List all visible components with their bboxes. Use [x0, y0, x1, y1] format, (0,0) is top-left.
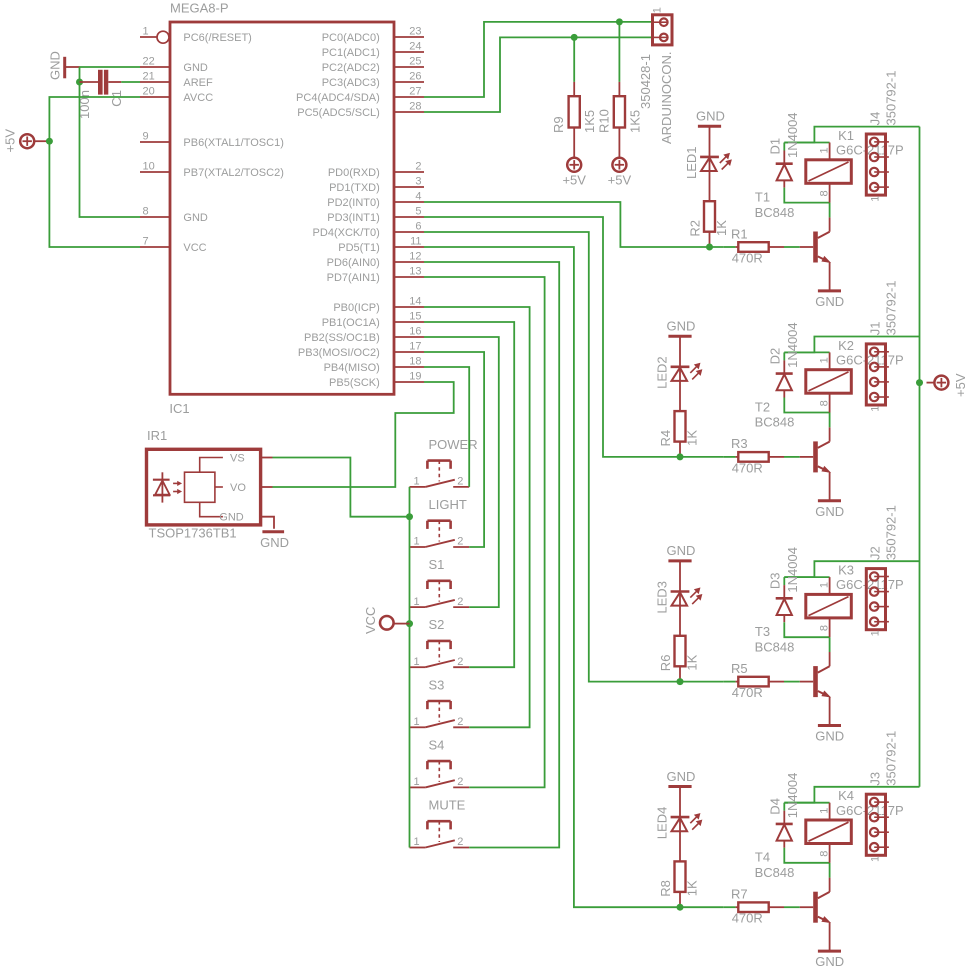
svg-text:PC0(ADC0): PC0(ADC0)	[322, 32, 380, 44]
svg-text:1: 1	[414, 836, 420, 848]
svg-text:LED2: LED2	[655, 356, 670, 389]
ground symbol (T4)	[818, 950, 841, 953]
svg-text:D2: D2	[768, 348, 783, 365]
svg-text:PB0(ICP): PB0(ICP)	[333, 302, 379, 314]
node junction R8/R7	[677, 904, 684, 911]
svg-text:21: 21	[143, 70, 155, 82]
svg-text:PC3(ADC3): PC3(ADC3)	[322, 77, 380, 89]
svg-text:PC5(ADC5/SCL): PC5(ADC5/SCL)	[297, 107, 380, 119]
pin 15 PB1(OC1A) (IC1 right)	[394, 321, 424, 323]
wire PB5 to IR1 VO	[273, 382, 454, 487]
wire pin28 PC5 to connector pin2	[424, 37, 653, 112]
svg-text:1: 1	[414, 596, 420, 608]
LED LED4	[679, 787, 681, 862]
svg-text:PD4(XCK/T0): PD4(XCK/T0)	[313, 227, 380, 239]
wire R1 to T1 base	[784, 246, 800, 248]
svg-text:1: 1	[870, 406, 882, 412]
svg-text:27: 27	[409, 85, 421, 97]
svg-text:20: 20	[143, 85, 155, 97]
svg-text:K1: K1	[838, 128, 854, 143]
pin VS stub	[261, 457, 273, 459]
svg-text:18: 18	[409, 355, 421, 367]
ground symbol (LED1)	[698, 125, 721, 128]
pin 19 PB5(SCK) (IC1 right)	[394, 381, 424, 383]
resistor R2 1K	[704, 201, 715, 232]
svg-text:GND: GND	[696, 109, 725, 124]
svg-text:1K: 1K	[685, 654, 700, 670]
svg-text:S2: S2	[429, 617, 445, 632]
svg-text:2: 2	[457, 716, 463, 728]
wire switch common vertical	[409, 487, 411, 848]
ground symbol (LED4)	[668, 785, 691, 788]
wire D2 to K2 pin8 and T2 collector	[784, 398, 829, 413]
svg-text:12: 12	[409, 250, 421, 262]
wire pin22 to ground	[80, 66, 141, 68]
svg-text:R1: R1	[731, 226, 748, 241]
wire C1 to pin 21 AREF	[121, 81, 140, 83]
wire pin27 PC4 to connector pin1	[424, 22, 653, 97]
ground symbol (LED2)	[668, 335, 691, 338]
svg-text:PC1(ADC1): PC1(ADC1)	[322, 47, 380, 59]
wire +5V feed to K3	[784, 561, 919, 577]
svg-text:1: 1	[870, 856, 882, 862]
wire D1 to K1 pin8 and T1 collector	[784, 188, 829, 203]
wire IR1 VS to switch common	[273, 458, 410, 517]
node junction R2/R1	[706, 244, 713, 251]
svg-text:16: 16	[409, 325, 421, 337]
+5V supply symbol (left)	[20, 134, 34, 148]
svg-text:J4: J4	[868, 112, 883, 126]
svg-text:350792-1: 350792-1	[884, 731, 899, 786]
svg-text:D3: D3	[768, 572, 783, 589]
svg-text:4: 4	[415, 190, 421, 202]
svg-text:+5V: +5V	[608, 172, 632, 187]
svg-text:+5V: +5V	[953, 373, 968, 397]
svg-text:PB5(SCK): PB5(SCK)	[329, 377, 380, 389]
wire PD7-S4	[424, 277, 545, 787]
wire PB2-S1	[424, 337, 499, 607]
IR light arrows	[173, 482, 178, 484]
svg-text:14: 14	[409, 295, 421, 307]
svg-text:GND: GND	[667, 543, 696, 558]
pin 11 PD5(T1) (IC1 right)	[394, 246, 424, 248]
svg-text:GND: GND	[48, 51, 63, 80]
svg-text:R2: R2	[688, 220, 703, 237]
svg-text:22: 22	[143, 55, 155, 67]
pin 24 PC1(ADC1) (IC1 right)	[394, 51, 424, 53]
IR receiver IR1 TSOP1736TB1 body	[147, 449, 261, 525]
svg-text:R5: R5	[731, 661, 748, 676]
pin 10 PB7(XTAL2/TOSC2) (IC1 left)	[140, 171, 170, 173]
svg-text:350792-1: 350792-1	[884, 280, 899, 335]
svg-text:PD7(AIN1): PD7(AIN1)	[327, 272, 380, 284]
svg-text:2: 2	[457, 836, 463, 848]
svg-text:2: 2	[457, 656, 463, 668]
LED LED3	[679, 561, 681, 636]
pin 4 PD2(INT0) (IC1 right)	[394, 201, 424, 203]
svg-text:5: 5	[415, 205, 421, 217]
transistor T1 BC848	[800, 246, 813, 248]
pin 20 AVCC (IC1 left)	[140, 96, 170, 98]
ground symbol (T2)	[818, 499, 841, 502]
svg-text:PD0(RXD): PD0(RXD)	[328, 167, 380, 179]
wire D4 to K4 pin8 and T4 collector	[784, 848, 829, 863]
pin 8 (K3)	[829, 618, 831, 637]
svg-text:PB4(MISO): PB4(MISO)	[324, 362, 380, 374]
connector ARDUINOCON 350428-1	[653, 15, 673, 45]
LED LED2	[679, 336, 681, 411]
pin 8 GND (IC1 left)	[140, 216, 170, 218]
svg-text:PD2(INT0): PD2(INT0)	[327, 197, 380, 209]
ground symbol (top left)	[63, 57, 66, 79]
wire R5 to T3 base	[784, 681, 800, 683]
svg-text:PD5(T1): PD5(T1)	[338, 242, 380, 254]
svg-text:BC848: BC848	[755, 415, 795, 430]
svg-text:1N4004: 1N4004	[785, 773, 800, 819]
node junction +5V bus tap	[916, 379, 923, 386]
wire +5V feed to K4	[784, 787, 919, 803]
svg-text:GND: GND	[815, 729, 844, 744]
svg-text:1: 1	[818, 147, 830, 153]
wire PD5 to relay driver 4	[424, 247, 723, 907]
relay K1 G6C-2117P coil	[806, 160, 852, 184]
svg-text:LIGHT: LIGHT	[429, 497, 467, 512]
switch MUTE	[410, 847, 426, 849]
svg-text:1K: 1K	[714, 220, 729, 236]
+5V supply symbol (R9)	[567, 158, 581, 172]
wire +5V vertical to AVCC and VCC	[49, 97, 140, 247]
pin 27 PC4(ADC4/SDA) (IC1 right)	[394, 96, 424, 98]
svg-text:1: 1	[414, 656, 420, 668]
diode D3 1N4004	[783, 577, 785, 585]
svg-text:MEGA8-P: MEGA8-P	[170, 0, 229, 15]
pin 26 PC3(ADC3) (IC1 right)	[394, 81, 424, 83]
relay K3 G6C-2117P coil	[806, 594, 852, 618]
wire GND net down to pin 8	[80, 82, 141, 217]
svg-text:VS: VS	[230, 453, 245, 465]
svg-text:1: 1	[818, 582, 830, 588]
svg-text:BC848: BC848	[755, 205, 795, 220]
pin 8 (K1)	[829, 183, 831, 202]
svg-text:VO: VO	[230, 482, 246, 494]
wire R7 to T4 base	[784, 906, 800, 908]
pin 25 PC2(ADC2) (IC1 right)	[394, 66, 424, 68]
svg-text:VCC: VCC	[183, 242, 206, 254]
pin 23 PC0(ADC0) (IC1 right)	[394, 36, 424, 38]
svg-text:GND: GND	[667, 319, 696, 334]
svg-text:17: 17	[409, 340, 421, 352]
svg-text:BC848: BC848	[755, 865, 795, 880]
svg-text:VCC: VCC	[363, 607, 378, 634]
svg-text:470R: 470R	[732, 911, 763, 926]
svg-text:T1: T1	[755, 189, 770, 204]
svg-text:R8: R8	[658, 880, 673, 897]
connector J4 350792-1	[866, 134, 885, 195]
pin 13 PD7(AIN1) (IC1 right)	[394, 276, 424, 278]
wire PB3-LIGHT	[424, 352, 484, 547]
switch S3	[410, 726, 426, 728]
wire R9 to net	[573, 37, 575, 82]
svg-text:MUTE: MUTE	[429, 798, 466, 813]
wire PD3 to relay driver 2	[424, 217, 723, 457]
resistor R1 470R	[723, 246, 735, 248]
svg-text:PC2(ADC2): PC2(ADC2)	[322, 62, 380, 74]
relay K4 G6C-2117P coil	[806, 820, 852, 844]
transistor T2 BC848	[800, 456, 813, 458]
svg-text:2: 2	[457, 536, 463, 548]
wire R3 to T2 base	[784, 456, 800, 458]
wire GND net down to C1	[79, 67, 81, 82]
svg-text:100n: 100n	[77, 90, 92, 119]
svg-text:8: 8	[818, 851, 830, 857]
svg-text:15: 15	[409, 310, 421, 322]
svg-text:1: 1	[870, 630, 882, 636]
svg-text:2: 2	[457, 776, 463, 788]
svg-text:LED4: LED4	[655, 807, 670, 840]
svg-text:T4: T4	[755, 850, 770, 865]
wire PD6-MUTE	[424, 262, 559, 848]
svg-text:1K: 1K	[685, 880, 700, 896]
pin 3 PD1(TXD) (IC1 right)	[394, 186, 424, 188]
svg-text:K2: K2	[838, 338, 854, 353]
pin GND stub to ground	[261, 517, 274, 529]
svg-text:POWER: POWER	[429, 437, 478, 452]
svg-text:25: 25	[409, 55, 421, 67]
svg-text:28: 28	[409, 100, 421, 112]
svg-text:J1: J1	[868, 322, 883, 336]
svg-text:T3: T3	[755, 624, 770, 639]
svg-text:J2: J2	[868, 546, 883, 560]
svg-text:PB6(XTAL1/TOSC1): PB6(XTAL1/TOSC1)	[183, 137, 283, 149]
switch LIGHT	[410, 546, 426, 548]
transistor T3 BC848	[800, 681, 813, 683]
node junction +5V tap	[46, 138, 53, 145]
resistor R5 470R	[723, 681, 735, 683]
connector J3 350792-1	[866, 794, 885, 855]
svg-text:1: 1	[414, 716, 420, 728]
svg-text:+5V: +5V	[3, 129, 18, 153]
connector J2 350792-1	[866, 569, 885, 630]
svg-text:23: 23	[409, 25, 421, 37]
svg-text:11: 11	[410, 235, 421, 247]
svg-text:GND: GND	[260, 535, 289, 550]
node junction R9 net	[571, 34, 578, 41]
svg-text:19: 19	[409, 370, 421, 382]
svg-text:26: 26	[409, 70, 421, 82]
pin 18 PB4(MISO) (IC1 right)	[394, 366, 424, 368]
pin 14 PB0(ICP) (IC1 right)	[394, 306, 424, 308]
resistor R7 470R	[723, 906, 735, 908]
svg-text:AREF: AREF	[183, 77, 213, 89]
pin 5 PD3(INT1) (IC1 right)	[394, 216, 424, 218]
ground symbol (LED3)	[668, 559, 691, 562]
svg-text:GND: GND	[183, 212, 208, 224]
wire PD2 to relay driver 1	[424, 202, 723, 247]
svg-text:K4: K4	[838, 788, 854, 803]
svg-text:1N4004: 1N4004	[785, 547, 800, 593]
svg-text:PB3(MOSI/OC2): PB3(MOSI/OC2)	[298, 347, 380, 359]
svg-text:ARDUINOCON.: ARDUINOCON.	[659, 52, 674, 144]
svg-text:13: 13	[409, 265, 421, 277]
pin 17 PB3(MOSI/OC2) (IC1 right)	[394, 351, 424, 353]
svg-text:1N4004: 1N4004	[785, 322, 800, 368]
pin 1 (K2)	[829, 352, 831, 369]
svg-text:350428-1: 350428-1	[638, 54, 653, 109]
+5V supply symbol (right)	[934, 376, 948, 390]
+5V supply symbol (R10)	[612, 158, 626, 172]
svg-text:1: 1	[414, 776, 420, 788]
diode D1 1N4004	[783, 143, 785, 151]
svg-text:3: 3	[415, 175, 421, 187]
svg-text:IR1: IR1	[147, 428, 167, 443]
svg-text:1: 1	[414, 476, 420, 488]
pin 6 PD4(XCK/T0) (IC1 right)	[394, 231, 424, 233]
wire PB1-S2	[424, 322, 514, 667]
svg-text:S3: S3	[429, 677, 445, 692]
svg-text:10: 10	[143, 160, 155, 172]
diode D4 1N4004	[783, 803, 785, 811]
pin 8 (K4)	[829, 844, 831, 863]
svg-text:1: 1	[818, 357, 830, 363]
svg-text:GND: GND	[667, 769, 696, 784]
node junction R6/R5	[677, 678, 684, 685]
diode D2 1N4004	[783, 352, 785, 360]
transistor T4 BC848	[800, 906, 813, 908]
svg-text:PB1(OC1A): PB1(OC1A)	[322, 317, 380, 329]
svg-text:2: 2	[457, 476, 463, 488]
svg-text:PB2(SS/OC1B): PB2(SS/OC1B)	[304, 332, 380, 344]
ground symbol (T1)	[818, 289, 841, 292]
svg-text:9: 9	[143, 130, 149, 142]
svg-text:AVCC: AVCC	[183, 92, 213, 104]
svg-text:GND: GND	[183, 62, 208, 74]
svg-text:8: 8	[818, 625, 830, 631]
pin 12 PD6(AIN0) (IC1 right)	[394, 261, 424, 263]
svg-text:1N4004: 1N4004	[785, 112, 800, 158]
node junction IR VS to switch common	[406, 513, 413, 520]
pin VO stub	[261, 486, 273, 488]
node junction VCC to switch common	[406, 620, 413, 627]
svg-text:R10: R10	[596, 109, 611, 133]
node junction R10 net	[616, 18, 623, 25]
svg-text:470R: 470R	[732, 460, 763, 475]
svg-text:350792-1: 350792-1	[884, 71, 899, 126]
svg-text:TSOP1736TB1: TSOP1736TB1	[149, 526, 237, 541]
IR1 internal block	[185, 472, 215, 502]
svg-text:350792-1: 350792-1	[884, 505, 899, 560]
svg-text:D4: D4	[768, 798, 783, 815]
svg-text:LED1: LED1	[684, 146, 699, 179]
pin 9 PB6(XTAL1/TOSC1) (IC1 left)	[140, 141, 170, 143]
switch POWER	[410, 486, 426, 488]
photodiode symbol inside IR1	[161, 472, 163, 502]
capacitor C1 100n	[80, 81, 99, 83]
svg-text:+5V: +5V	[562, 172, 586, 187]
node junction R4/R3	[677, 453, 684, 460]
ground symbol (IR1)	[262, 530, 284, 533]
resistor R10 1K5	[618, 82, 620, 96]
svg-text:1K5: 1K5	[582, 110, 597, 133]
switch S2	[410, 666, 426, 668]
svg-text:T2: T2	[755, 399, 770, 414]
pin 21 AREF (IC1 left)	[140, 81, 170, 83]
wire PB0-S3	[424, 307, 530, 727]
svg-text:PB7(XTAL2/TOSC2): PB7(XTAL2/TOSC2)	[183, 167, 283, 179]
switch S4	[410, 786, 426, 788]
svg-text:IC1: IC1	[169, 401, 189, 416]
pin 1 (K3)	[829, 577, 831, 594]
svg-text:BC848: BC848	[755, 639, 795, 654]
wire +5V feed to K2	[784, 337, 919, 353]
svg-text:PC4(ADC4/SDA): PC4(ADC4/SDA)	[296, 92, 380, 104]
resistor R9 1K5	[573, 82, 575, 96]
svg-text:1K5: 1K5	[627, 110, 642, 133]
switch S1	[410, 606, 426, 608]
pin 8 (K2)	[829, 393, 831, 412]
svg-text:8: 8	[143, 205, 149, 217]
svg-text:7: 7	[143, 235, 149, 247]
pin 7 VCC (IC1 left)	[140, 246, 170, 248]
svg-text:R4: R4	[658, 430, 673, 447]
svg-text:PC6(/RESET): PC6(/RESET)	[183, 32, 251, 44]
svg-text:PD1(TXD): PD1(TXD)	[329, 182, 380, 194]
svg-text:D1: D1	[768, 138, 783, 155]
svg-text:6: 6	[415, 220, 421, 232]
relay K2 G6C-2117P coil	[806, 370, 852, 394]
svg-text:1: 1	[143, 25, 149, 37]
svg-text:1K: 1K	[685, 430, 700, 446]
IC IC1 MEGA8-P body	[170, 22, 394, 394]
svg-text:470R: 470R	[732, 251, 763, 266]
pin 22 GND (IC1 left)	[140, 66, 170, 68]
wire +5V bus (right)	[919, 127, 921, 787]
svg-text:LED3: LED3	[655, 581, 670, 614]
wire +5V feed to K1	[784, 127, 919, 143]
svg-text:S1: S1	[429, 557, 445, 572]
svg-text:S4: S4	[429, 737, 445, 752]
svg-text:1: 1	[818, 808, 830, 814]
svg-text:R7: R7	[731, 887, 748, 902]
svg-text:470R: 470R	[732, 685, 763, 700]
wire PD4 to relay driver 3	[424, 232, 723, 682]
svg-text:2: 2	[415, 160, 421, 172]
pin 28 PC5(ADC5/SCL) (IC1 right)	[394, 111, 424, 113]
VCC supply symbol	[380, 616, 394, 630]
wire R10 to net	[618, 22, 620, 82]
pin 16 PB2(SS/OC1B) (IC1 right)	[394, 336, 424, 338]
LED LED1	[709, 126, 711, 201]
pin 2 PD0(RXD) (IC1 right)	[394, 171, 424, 173]
ground symbol (T3)	[818, 724, 841, 727]
svg-text:GND: GND	[815, 294, 844, 309]
svg-text:R6: R6	[658, 655, 673, 672]
resistor R6 1K	[675, 636, 686, 667]
svg-text:GND: GND	[815, 954, 844, 969]
resistor R3 470R	[723, 456, 735, 458]
svg-text:C1: C1	[109, 90, 124, 107]
node junction C1/GND net	[76, 79, 83, 86]
pin 1 PC6(/RESET) with inversion bubble	[140, 36, 157, 38]
svg-text:K3: K3	[838, 563, 854, 578]
resistor R8 1K	[675, 861, 686, 892]
resistor R4 1K	[675, 411, 686, 442]
svg-text:1: 1	[870, 196, 882, 202]
svg-text:PD3(INT1): PD3(INT1)	[327, 212, 380, 224]
svg-text:1: 1	[414, 536, 420, 548]
pin 1 (K4)	[829, 803, 831, 820]
svg-text:J3: J3	[868, 772, 883, 786]
connector J1 350792-1	[866, 344, 885, 405]
